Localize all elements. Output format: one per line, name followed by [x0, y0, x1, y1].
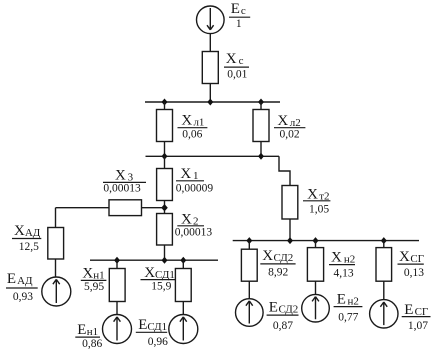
svg-text:1: 1: [236, 18, 242, 30]
wire bus3 to XSD1: [182, 260, 184, 268]
wire down to XAD: [55, 208, 57, 228]
svg-text:12,5: 12,5: [19, 241, 39, 253]
junction dot bus3-X2: [162, 257, 168, 264]
svg-text:0,77: 0,77: [338, 311, 358, 323]
source U En2 (circle with up arrow): [302, 294, 330, 322]
source U Ec (system EMF, circle with down arrow): [197, 6, 225, 34]
resistor Xn2: [307, 248, 323, 282]
svg-text:Хс: Хс: [226, 51, 244, 67]
label X2 value 0,00013: [175, 211, 213, 238]
bus2 node K2: [146, 155, 280, 157]
resistor XAD: [48, 228, 64, 260]
svg-text:Хл2: Хл2: [277, 113, 300, 129]
wire bus4 to XSD2: [248, 241, 250, 250]
svg-text:0,93: 0,93: [13, 291, 33, 303]
wire Xt2 to bus4: [289, 219, 291, 241]
svg-text:ХСГ: ХСГ: [399, 249, 424, 265]
source U EAD (circle with up arrow): [42, 277, 71, 306]
resistor Xl2: [253, 110, 269, 142]
label XSD1 value 15,9: [141, 265, 176, 293]
label Xl2 value 0,02: [274, 113, 305, 141]
junction dot bus1-Xl2: [258, 99, 264, 106]
svg-text:1,07: 1,07: [408, 320, 428, 332]
wire X3 to XAD branch: [56, 207, 110, 209]
svg-text:1,05: 1,05: [309, 203, 329, 215]
junction dot bus4-XSG: [381, 237, 387, 244]
wire X2 to bus3: [164, 245, 166, 260]
wire XSD1 to ESD1: [182, 302, 184, 315]
resistor Xl1: [157, 110, 173, 142]
label En2 value 0,77: [334, 292, 363, 324]
svg-text:Ен1: Ен1: [77, 322, 98, 338]
junction dot bus4-XSD2: [246, 237, 252, 244]
label Xl1 value 0,06: [178, 112, 208, 140]
junction dot bus2-X1: [162, 153, 168, 160]
wire bus4 to XSG: [383, 241, 385, 248]
wire bus2 to X1: [164, 156, 166, 168]
label X3 value 0,00013: [103, 168, 146, 195]
svg-text:ХАД: ХАД: [14, 223, 41, 239]
wire Ec to Xc: [209, 34, 211, 52]
wire XAD to EAD: [55, 259, 57, 277]
resistor X2: [157, 214, 173, 246]
resistor Xt2: [282, 186, 298, 220]
svg-text:ЕСД2: ЕСД2: [269, 300, 299, 316]
svg-text:4,13: 4,13: [334, 267, 354, 279]
resistor XSD2: [241, 249, 257, 281]
source U ESD1 (circle with up arrow): [169, 315, 198, 344]
junction dot bus3-Xn1: [114, 257, 120, 264]
resistor X1: [157, 169, 173, 201]
junction dot bus4-Xn2: [313, 237, 319, 244]
label Xc value 0,01: [224, 51, 249, 81]
label EAD value 0,93: [6, 271, 38, 303]
wire Xl1 to bus2: [164, 142, 166, 157]
label XAD value 12,5: [12, 223, 41, 253]
wire Xn1 to En1: [116, 302, 118, 315]
svg-text:ЕАД: ЕАД: [7, 271, 33, 287]
svg-text:ХСД2: ХСД2: [262, 248, 293, 264]
svg-text:0,87: 0,87: [273, 320, 293, 332]
svg-text:0,00009: 0,00009: [176, 182, 214, 194]
source U ESG (circle with up arrow): [370, 300, 398, 328]
svg-text:Х1: Х1: [180, 166, 198, 182]
svg-text:0,06: 0,06: [182, 129, 202, 141]
svg-text:0,02: 0,02: [280, 129, 300, 141]
label XSD2 value 8,92: [260, 248, 295, 279]
wire bus2 jog to Xt2: [279, 156, 290, 185]
svg-text:0,00013: 0,00013: [175, 227, 213, 239]
svg-text:Хт2: Хт2: [307, 187, 329, 203]
resistor Xn1: [109, 269, 125, 302]
svg-text:Х3: Х3: [115, 168, 134, 184]
wire Xl2 to bus2: [260, 142, 262, 157]
wire XSG to ESG: [383, 281, 385, 299]
label ESD2 value 0,87: [267, 300, 299, 332]
source U ESD2 (circle with up arrow): [236, 299, 264, 327]
wire X1 to X2 through node: [164, 201, 166, 214]
svg-text:Хл1: Хл1: [181, 112, 204, 128]
svg-text:Хн2: Хн2: [331, 250, 355, 266]
svg-text:15,9: 15,9: [151, 281, 171, 293]
wire Xc to bus1: [209, 84, 211, 103]
wire Xn2 to En2: [315, 281, 317, 294]
label Ec value 1: [229, 1, 250, 30]
junction dot bus2-Xl2: [258, 153, 264, 160]
junction dot node X1-X2-X3: [161, 204, 168, 211]
svg-text:0,13: 0,13: [404, 267, 424, 279]
junction dot bus4-Xt2: [287, 237, 293, 244]
label ESD1 value 0,96: [136, 317, 168, 348]
svg-text:Ес: Ес: [231, 1, 246, 17]
label Xn2 value 4,13: [329, 250, 355, 280]
svg-text:Ен2: Ен2: [337, 292, 359, 308]
label En1 value 0,86: [75, 322, 102, 350]
resistor Xc: [202, 52, 218, 84]
wire bus1 to Xl2: [260, 102, 262, 110]
junction dot bus1-Xl1: [162, 99, 168, 106]
junction dot bus3-XSD1: [180, 257, 186, 264]
svg-text:0,86: 0,86: [82, 338, 102, 350]
svg-text:5,95: 5,95: [84, 281, 104, 293]
resistor XSG: [376, 248, 392, 282]
svg-text:ЕСГ: ЕСГ: [404, 302, 428, 318]
junction dot bus1-Xc: [207, 99, 213, 106]
svg-text:ЕСД1: ЕСД1: [138, 317, 167, 333]
label ESG value 1,07: [402, 302, 431, 332]
source U En1 (circle with up arrow): [103, 315, 132, 344]
resistor XSD1: [175, 269, 191, 302]
wire X3 to node: [142, 207, 165, 209]
resistor X3 horizontal: [109, 200, 142, 216]
svg-text:ХСД1: ХСД1: [144, 265, 175, 281]
svg-text:0,00013: 0,00013: [103, 182, 141, 194]
wire bus3 to Xn1: [116, 260, 118, 268]
svg-text:8,92: 8,92: [268, 267, 288, 279]
bus3 left load bus: [90, 259, 218, 261]
bus4 right load bus: [233, 240, 419, 242]
label XSG value 0,13: [398, 249, 425, 279]
wire bus4 to Xn2: [315, 241, 317, 248]
label X1 value 0,00009: [176, 166, 214, 194]
wire bus1 to Xl1: [164, 102, 166, 110]
svg-text:0,96: 0,96: [148, 336, 168, 348]
svg-text:Хн1: Хн1: [82, 265, 104, 281]
svg-text:Х2: Х2: [181, 211, 199, 227]
label Xt2 value 1,05: [303, 187, 330, 216]
label Xn1 value 5,95: [81, 265, 107, 293]
svg-text:0,01: 0,01: [227, 69, 247, 81]
bus1 node K1: [145, 101, 280, 103]
wire XSD2 to ESD2: [248, 281, 250, 299]
